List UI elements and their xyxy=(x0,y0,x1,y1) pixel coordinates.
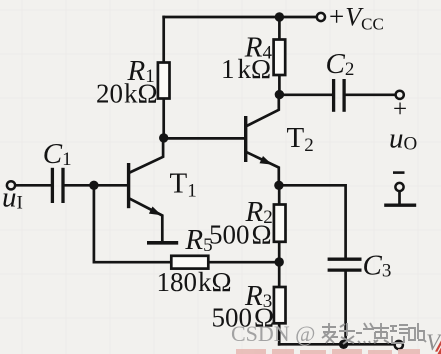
svg-text:20kΩ: 20kΩ xyxy=(96,78,158,108)
input terminal circle xyxy=(7,181,15,189)
label minus sign at output xyxy=(393,171,405,174)
svg-text:500Ω: 500Ω xyxy=(209,219,272,249)
wire C2 right plate to output terminal xyxy=(346,93,395,96)
svg-text:CSDN @: CSDN @ xyxy=(231,321,315,346)
watermark pink lower row fragments xyxy=(236,349,420,354)
wire C1 right plate to node C xyxy=(65,184,94,187)
node D junction dot (R2 / R3 / R5) xyxy=(275,257,284,266)
negative rail terminal circle xyxy=(395,341,403,349)
output common terminal circle with ground xyxy=(384,183,416,205)
node C junction dot (C1 / T1 base / R5 riser) xyxy=(89,181,98,190)
wire base of T2 from node A xyxy=(164,137,245,140)
wire node C to T1 base xyxy=(94,184,127,187)
resistor R2 xyxy=(274,205,286,242)
wire R1 bottom lead xyxy=(162,99,165,139)
wire R2 top lead xyxy=(278,185,281,204)
output plus terminal circle xyxy=(396,91,404,99)
wire bottom rail to negative terminal xyxy=(279,343,393,346)
capacitor C2 xyxy=(334,79,345,112)
transistor T1 xyxy=(129,138,164,241)
wire node D to R5 right lead xyxy=(208,261,279,264)
svg-text:V: V xyxy=(426,330,441,354)
wire R2 bottom to R3 top (through node D) xyxy=(278,242,281,287)
node A junction dot (R1 / T1 collector / T2 base) xyxy=(159,133,168,142)
transistor T1 emitter arrow xyxy=(149,207,162,216)
resistor R4 xyxy=(274,40,286,76)
wire T2 emitter node to C3 branch corner xyxy=(279,185,346,257)
ground of T1 emitter xyxy=(147,241,178,245)
wire node B to C2 left plate xyxy=(279,93,332,96)
+Vcc terminal circle xyxy=(317,13,325,21)
wire input terminal to C1 left plate xyxy=(16,184,51,187)
watermark CJK glyph blocks xyxy=(322,323,426,344)
capacitor C3 xyxy=(328,259,362,270)
node B junction dot (R4 / C2 / T2 collector) xyxy=(275,90,284,99)
wire C3 bottom lead xyxy=(344,272,347,345)
wire top rail xyxy=(164,16,316,19)
wire R3 bottom lead xyxy=(278,323,281,344)
resistor R3 xyxy=(274,287,286,323)
resistor R1 xyxy=(158,63,170,99)
transistor T2 emitter arrow xyxy=(260,156,273,165)
node junction dot top rail / R4 xyxy=(275,12,284,21)
node junction dot bottom rail / C3 xyxy=(339,340,348,349)
svg-text:+: + xyxy=(393,96,407,123)
resistor R5 xyxy=(171,256,208,269)
watermark red corner wedge xyxy=(438,348,441,354)
transistor T2 xyxy=(246,95,279,186)
svg-text:180kΩ: 180kΩ xyxy=(157,267,232,297)
wire R1 top lead xyxy=(162,17,165,63)
wire R4 bottom lead xyxy=(278,75,281,95)
node junction dot T2 emitter / R2 / C3 branch xyxy=(274,181,283,190)
svg-text:1kΩ: 1kΩ xyxy=(221,54,271,84)
wire R5 left lead and riser to node C xyxy=(94,185,171,262)
wire R4 top lead xyxy=(278,17,281,40)
capacitor C1 xyxy=(52,168,63,203)
